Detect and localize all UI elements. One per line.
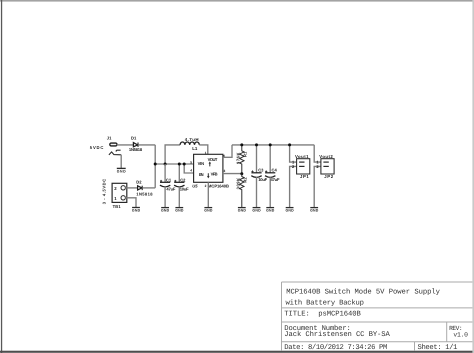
page border left	[1, 0, 2, 353]
svg-text:3: 3	[224, 169, 226, 173]
svg-text:309K: 309K	[235, 178, 240, 190]
U5 ground arrow	[208, 173, 210, 177]
svg-text:v1.0: v1.0	[453, 332, 468, 339]
svg-text:U5: U5	[192, 184, 198, 189]
resistor R2	[240, 174, 244, 208]
title block left line	[281, 282, 283, 351]
svg-text:Jack Christensen CC BY-SA: Jack Christensen CC BY-SA	[284, 330, 390, 339]
terminal block TB1	[112, 183, 127, 202]
svg-text:Sheet: 1/1: Sheet: 1/1	[418, 343, 458, 352]
ground under JP1	[286, 208, 295, 213]
svg-text:VIN: VIN	[198, 161, 205, 166]
junction at D join and VIN rail	[154, 163, 157, 166]
resistor R1	[240, 145, 244, 174]
svg-text:GND: GND	[266, 209, 275, 213]
svg-text:3 - 4.5VDC: 3 - 4.5VDC	[102, 179, 107, 205]
wire J1 switch to ground	[120, 155, 122, 168]
wire EN branch	[184, 164, 193, 173]
svg-text:Date: 8/10/2012 7:34:26 PM: Date: 8/10/2012 7:34:26 PM	[284, 343, 387, 352]
title block REV separator	[446, 322, 448, 342]
ground under U5	[204, 208, 213, 213]
capacitor C2	[174, 164, 184, 207]
svg-text:1N5818: 1N5818	[136, 192, 153, 197]
wire D1 cathode to corner	[138, 144, 155, 146]
wire J1 tip to D1 anode	[117, 144, 134, 146]
diode D2	[138, 186, 143, 190]
page border bottom	[0, 351, 474, 353]
ground under C1	[161, 208, 170, 213]
svg-text:MCP1640B Switch Mode 5V Power: MCP1640B Switch Mode 5V Power Supply	[286, 288, 440, 297]
svg-text:VOUT: VOUT	[208, 157, 218, 162]
svg-text:C2: C2	[180, 177, 186, 182]
wire JP1 pin1 riser	[290, 145, 296, 162]
svg-text:4: 4	[190, 169, 192, 173]
svg-text:GND: GND	[252, 209, 261, 213]
svg-text:D1: D1	[131, 136, 137, 141]
svg-text:1N5818: 1N5818	[129, 147, 143, 152]
wire JP1 pin2 to ground	[290, 166, 297, 207]
svg-text:R1: R1	[242, 151, 247, 157]
svg-text:JP1: JP1	[300, 174, 309, 179]
svg-text:976K: 976K	[235, 152, 240, 164]
svg-text:Vout2: Vout2	[319, 154, 333, 159]
junction VFB node	[240, 172, 243, 175]
wire VFB to divider	[223, 173, 242, 175]
title block line under TITLE row	[282, 321, 473, 323]
svg-text:Vout1: Vout1	[295, 154, 309, 159]
wire JP2 pin2 to ground	[314, 166, 321, 207]
svg-text:GND: GND	[238, 209, 247, 213]
svg-text:C4: C4	[272, 167, 278, 172]
diode D1	[133, 143, 138, 147]
ground under C4	[266, 208, 275, 213]
svg-text:TB1: TB1	[113, 204, 122, 209]
pin header JP1	[297, 159, 310, 174]
svg-text:JP2: JP2	[324, 174, 333, 179]
J1 sleeve contact	[109, 152, 121, 155]
svg-text:5: 5	[190, 160, 192, 164]
wire riser to inductor row	[165, 145, 180, 164]
svg-text:GND: GND	[310, 209, 319, 213]
svg-text:with Battery Backup: with Battery Backup	[286, 298, 365, 307]
ground under C2	[175, 208, 184, 213]
VIN rail wire	[155, 163, 193, 165]
wire JP2 pin1 riser	[314, 145, 321, 162]
svg-text:EN: EN	[199, 172, 204, 177]
ground under R2	[238, 208, 247, 213]
svg-text:C3: C3	[258, 167, 264, 172]
page border top	[0, 0, 474, 2]
svg-text:GND: GND	[175, 209, 184, 213]
svg-text:47uF: 47uF	[166, 187, 175, 192]
junction C4	[269, 143, 272, 146]
svg-text:C1: C1	[166, 177, 172, 182]
svg-text:10uF: 10uF	[258, 177, 267, 182]
ground under J1	[117, 168, 126, 173]
ground under C3	[252, 208, 261, 213]
page border right	[472, 0, 474, 353]
title block line under document row	[282, 341, 473, 343]
wire D2 cathode to join	[142, 187, 155, 189]
ground under JP2	[310, 208, 319, 213]
svg-text:VFB: VFB	[211, 172, 218, 177]
svg-text:TITLE: psMCP1640B: TITLE: psMCP1640B	[284, 310, 361, 318]
wire L1 to SW pin	[199, 145, 208, 154]
junction C3	[255, 143, 258, 146]
svg-text:MCP1640B: MCP1640B	[208, 184, 229, 189]
svg-text:2: 2	[205, 184, 207, 188]
svg-text:D2: D2	[136, 179, 142, 184]
svg-text:1: 1	[205, 151, 207, 155]
wire VOUT pin to output rail	[223, 145, 232, 157]
title block Sheet separator	[414, 342, 416, 351]
ground under TB1	[132, 208, 141, 213]
wire U5 GND pin to ground	[207, 182, 209, 207]
svg-text:10uF: 10uF	[180, 187, 189, 192]
capacitor C1	[160, 164, 170, 207]
junction EN branch	[183, 163, 186, 166]
pin header JP2	[321, 159, 334, 174]
title block top line	[282, 281, 473, 283]
svg-text:J1: J1	[107, 136, 112, 141]
op-amp style IC U5 MCP1640B body	[194, 154, 223, 182]
capacitor C3	[251, 145, 261, 208]
junction JP1 riser	[288, 143, 291, 146]
svg-text:4.7uH: 4.7uH	[185, 137, 199, 142]
connector J1 barrel jack tip	[110, 143, 117, 146]
svg-text:47uF: 47uF	[271, 177, 280, 182]
svg-text:5VDC: 5VDC	[90, 145, 104, 150]
wire TB1 pin1 to ground	[125, 198, 136, 207]
wire vertical D1/D2 join	[154, 145, 156, 188]
svg-text:L1: L1	[192, 146, 198, 151]
svg-text:R2: R2	[242, 177, 247, 183]
svg-text:GND: GND	[286, 209, 295, 213]
title block line under description	[282, 307, 473, 309]
U5 VOUT arrow	[209, 162, 211, 166]
capacitor C4	[265, 145, 275, 208]
junction C1 / riser	[164, 163, 167, 166]
svg-text:GND: GND	[204, 209, 213, 213]
inductor L1	[180, 142, 199, 145]
svg-text:GND: GND	[117, 170, 126, 174]
output rail wire	[232, 144, 314, 146]
junction R1 top	[240, 143, 243, 146]
junction C2	[178, 163, 181, 166]
svg-text:GND: GND	[161, 209, 170, 213]
svg-text:GND: GND	[132, 209, 141, 213]
wire TB1 pin2 to D2 anode	[125, 187, 137, 189]
J1 switch contact	[116, 150, 120, 151]
